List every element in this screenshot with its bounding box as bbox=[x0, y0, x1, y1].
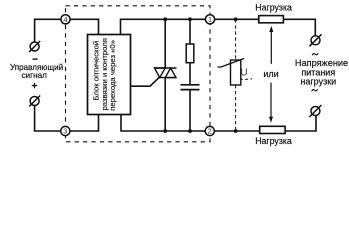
svg-text:нагрузки: нагрузки bbox=[300, 77, 336, 87]
wire: control + input, terminal to node 4 bbox=[35, 19, 61, 42]
bottom load resistor bbox=[260, 126, 285, 133]
wire: top load to supply terminal bbox=[284, 19, 316, 36]
wire: resistor to capacitor bbox=[189, 63, 191, 84]
wire: triac gate bbox=[131, 78, 159, 86]
wire: triac anode from top rail bbox=[164, 19, 166, 68]
wire: node 3 to block bottom-left pin bbox=[70, 115, 99, 132]
wire: node 1 to top load bbox=[215, 18, 259, 20]
SSR module dashed boundary bbox=[66, 6, 211, 142]
label: Напряжение питания нагрузки bbox=[295, 58, 348, 87]
node: varistor/bottom rail bbox=[234, 129, 238, 133]
svg-text:Нагрузка: Нагрузка bbox=[255, 2, 292, 12]
varistor RU bbox=[218, 59, 253, 86]
junction dots bbox=[163, 17, 237, 133]
terminal 4 bbox=[61, 15, 70, 24]
control terminal + (top left) bbox=[29, 41, 40, 52]
snubber capacitor C bbox=[181, 85, 200, 90]
triac top bar bbox=[154, 67, 177, 69]
svg-text:Напряжение: Напряжение bbox=[295, 58, 348, 68]
block U1: optical isolation & zero-cross control bbox=[88, 35, 131, 115]
wire: bottom load to supply terminal bbox=[285, 115, 316, 131]
terminal 3 bbox=[61, 126, 70, 135]
alternative arrow down bbox=[269, 83, 273, 123]
control terminal - (bottom left) bbox=[29, 96, 40, 107]
alternative arrow up bbox=[269, 26, 273, 64]
triac left triangle bbox=[154, 68, 165, 78]
wire: node 4 to block top-left pin bbox=[70, 19, 98, 34]
svg-text:или: или bbox=[263, 69, 278, 79]
varistor diagonal bbox=[218, 59, 245, 68]
dashed leader under U bbox=[240, 78, 252, 79]
wire: node 2 to bottom load bbox=[214, 130, 259, 132]
svg-text:перехода через «0»: перехода через «0» bbox=[108, 40, 117, 111]
node: capacitor/bottom rail bbox=[188, 129, 192, 133]
wire: control - input, terminal to node 3 bbox=[35, 106, 61, 132]
varistor branch dashed wire top bbox=[235, 19, 237, 60]
terminal 2 bbox=[205, 126, 214, 135]
wire: block bottom-right pin to bottom rail bbox=[121, 115, 205, 132]
snubber resistor R bbox=[186, 44, 194, 63]
node: triac/top rail bbox=[163, 17, 167, 21]
triac bottom bar bbox=[158, 77, 176, 79]
triac right triangle bbox=[165, 68, 176, 78]
triac VS1 bbox=[154, 68, 177, 78]
top load resistor bbox=[259, 16, 284, 23]
label: minus bbox=[33, 58, 38, 59]
svg-text:2: 2 bbox=[208, 127, 212, 136]
label: ~ (bottom) bbox=[312, 89, 318, 91]
label: plus bbox=[32, 83, 37, 88]
wire: block top-right pin to top rail bbox=[121, 19, 206, 34]
svg-text:3: 3 bbox=[63, 127, 67, 136]
terminal 1 bbox=[205, 15, 214, 24]
svg-text:сигнал: сигнал bbox=[21, 71, 47, 80]
node: triac/bottom rail bbox=[163, 129, 167, 133]
varistor branch dashed wire bottom bbox=[235, 85, 237, 131]
svg-text:U: U bbox=[240, 68, 247, 79]
supply terminal bottom right bbox=[309, 105, 321, 117]
wire: triac to bottom rail bbox=[164, 78, 166, 131]
wire: capacitor to bottom rail bbox=[189, 90, 191, 131]
label: Управляющий сигнал bbox=[10, 63, 63, 80]
svg-text:1: 1 bbox=[208, 15, 212, 24]
node: varistor/top rail bbox=[234, 17, 238, 21]
label: ~ (top) bbox=[312, 53, 318, 55]
wire: snubber resistor top bbox=[189, 19, 191, 44]
supply terminal top right bbox=[310, 34, 322, 46]
svg-text:4: 4 bbox=[63, 15, 67, 24]
svg-text:Нагрузка: Нагрузка bbox=[255, 136, 292, 146]
node: resistor/top rail bbox=[188, 17, 192, 21]
